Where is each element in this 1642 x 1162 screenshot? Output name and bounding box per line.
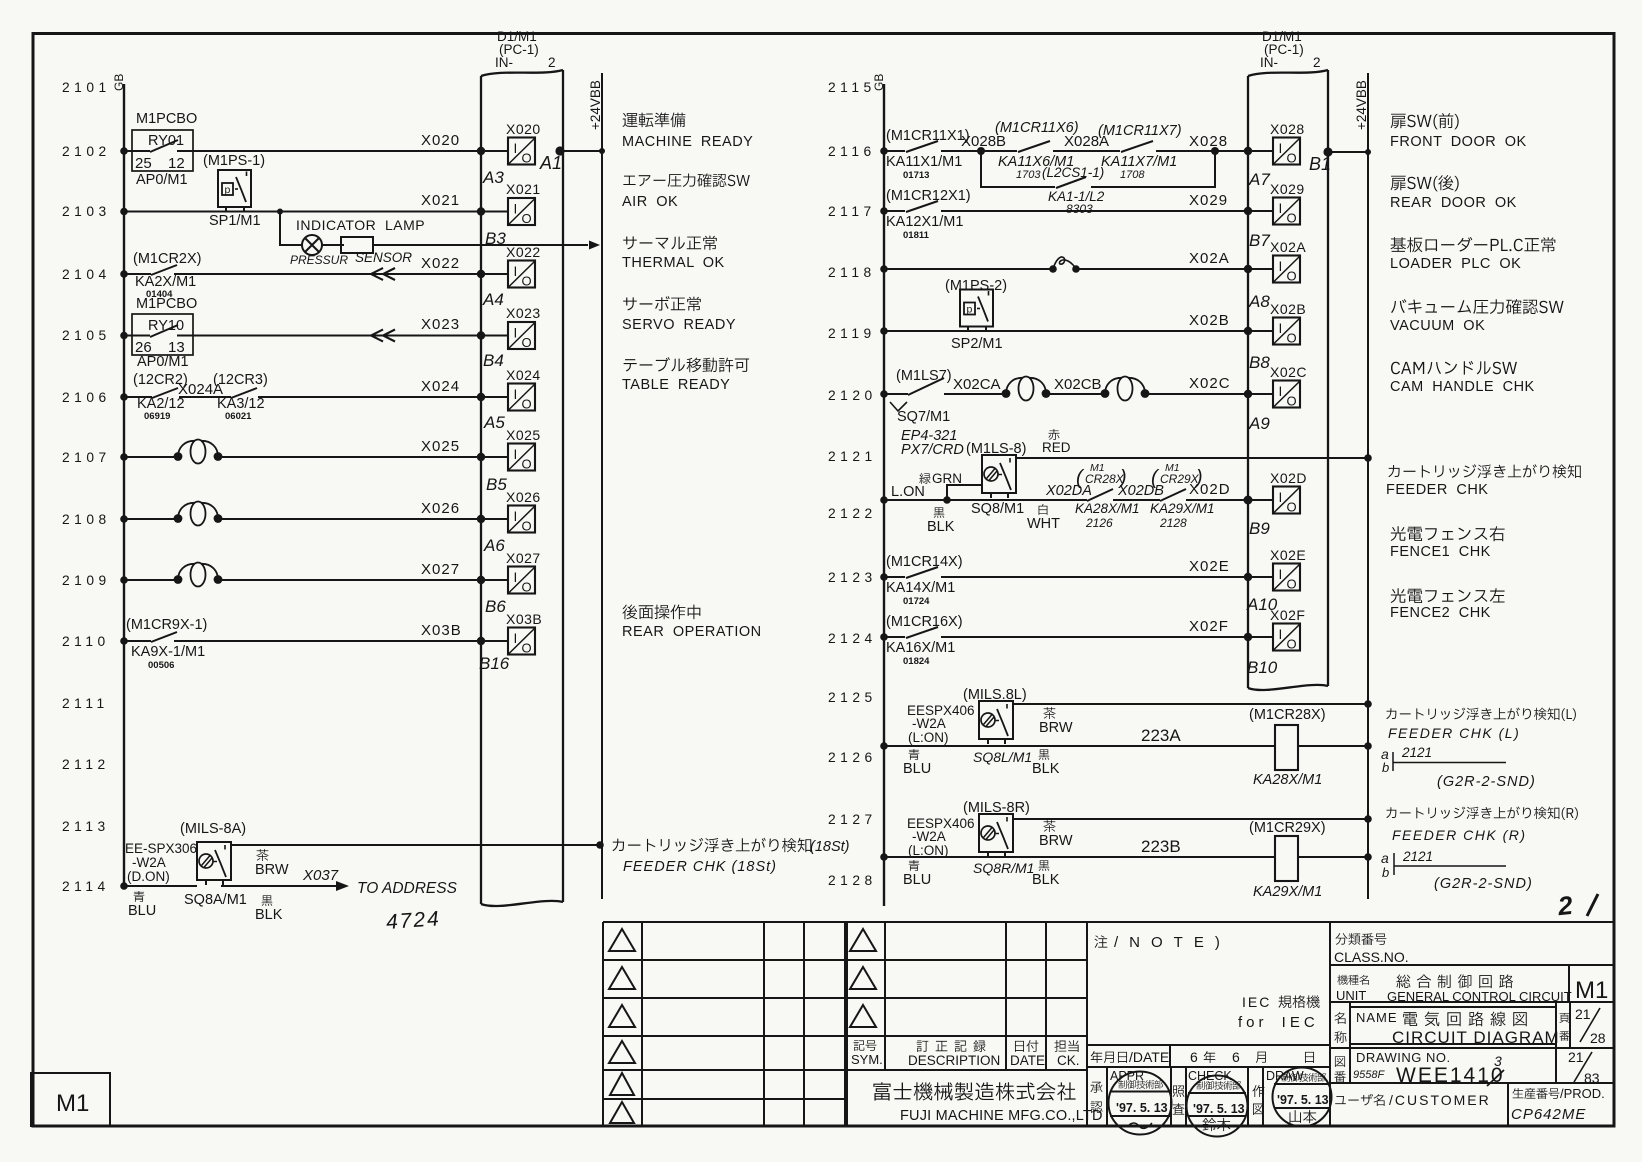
svg-text:2128: 2128	[828, 873, 877, 888]
wire rung 2110	[120, 637, 508, 645]
svg-text:(M1CR2X): (M1CR2X)	[133, 251, 201, 267]
cross reference a/b 2121 R	[1381, 849, 1533, 892]
label X02F wire	[1189, 618, 1229, 635]
svg-text:(G2R-2-SND): (G2R-2-SND)	[1434, 876, 1533, 892]
label WHT white wire	[1027, 504, 1060, 532]
caption rung 2123 FENCE1 CHK	[1390, 526, 1505, 560]
photo sensor switch SQ8A/M1 (MILS-8A)	[125, 821, 247, 908]
PLC input X020	[506, 121, 541, 166]
svg-text:for IEC: for IEC	[1238, 1014, 1319, 1031]
svg-text:X027: X027	[506, 550, 541, 566]
svg-text:BLK: BLK	[255, 907, 283, 923]
svg-text:06919: 06919	[144, 411, 170, 422]
relay contact RY01 M1PCBO	[132, 111, 197, 188]
wire lamp branch	[280, 212, 588, 246]
svg-text:GENERAL CONTROL CIRCUIT: GENERAL CONTROL CIRCUIT	[1387, 989, 1572, 1004]
svg-text:VACUUM OK: VACUUM OK	[1390, 318, 1485, 334]
svg-text:KA14X/M1: KA14X/M1	[886, 580, 955, 596]
svg-text:X02F: X02F	[1189, 618, 1229, 635]
wire rung 2122	[880, 496, 1273, 505]
svg-text:M1PCBO: M1PCBO	[136, 111, 197, 127]
wire 2121 sensor red to +24VBB	[1016, 454, 1372, 462]
svg-text:B16: B16	[479, 654, 510, 673]
PLC input X022	[506, 244, 541, 289]
date row	[1091, 1049, 1314, 1065]
title block grid	[603, 922, 1614, 1126]
svg-text:/PROD.: /PROD.	[1560, 1086, 1605, 1101]
arrows rung 2105	[371, 330, 395, 342]
relay contact M1CR14X	[886, 554, 963, 607]
svg-text:2112: 2112	[62, 757, 110, 772]
svg-text:b: b	[1382, 760, 1389, 775]
revision triangles table A	[609, 929, 635, 1123]
svg-text:(D.ON): (D.ON)	[127, 869, 170, 884]
svg-text:M1: M1	[56, 1090, 89, 1117]
PLC input X024	[506, 367, 541, 412]
caption rung 2117 REAR DOOR OK	[1390, 175, 1517, 211]
label BLK 2126	[1032, 749, 1060, 777]
connector D1/M1 (PC-1) IN-2 left header	[495, 29, 556, 70]
svg-text:REAR OPERATION: REAR OPERATION	[622, 624, 762, 640]
limit switch SQ7/M1 (M1LS7)	[890, 368, 952, 425]
svg-text:2119: 2119	[828, 326, 876, 341]
connector pair rung 2109	[174, 563, 223, 587]
svg-text:6: 6	[1232, 1049, 1240, 1065]
svg-text:2115: 2115	[828, 80, 876, 95]
company name FUJI MACHINE	[873, 1082, 1102, 1124]
svg-text:SQ8A/M1: SQ8A/M1	[184, 892, 247, 908]
arrow to +24VBB	[589, 241, 600, 250]
svg-text:83: 83	[1584, 1070, 1600, 1086]
relay contact 12CR2	[133, 372, 188, 422]
svg-text:CK.: CK.	[1057, 1053, 1080, 1068]
svg-text:DRAWING NO.: DRAWING NO.	[1356, 1050, 1451, 1065]
svg-text:a: a	[1381, 850, 1389, 866]
PLC input X02B	[1270, 301, 1306, 346]
svg-text:2110: 2110	[62, 634, 110, 649]
svg-text:KA11X1/M1: KA11X1/M1	[886, 154, 962, 170]
svg-text:SQ8R/M1: SQ8R/M1	[973, 860, 1034, 876]
svg-text:SERVO READY: SERVO READY	[622, 317, 736, 333]
wire rung 2107	[120, 453, 508, 461]
svg-text:B9: B9	[1249, 519, 1270, 538]
svg-text:(M1CR12X1): (M1CR12X1)	[886, 188, 971, 204]
label X028 wire	[1189, 133, 1228, 150]
class no cell	[1334, 933, 1409, 965]
label INDICATOR LAMP	[296, 217, 425, 233]
wire left GB bus	[123, 84, 125, 886]
svg-text:INDICATOR LAMP: INDICATOR LAMP	[296, 217, 425, 233]
svg-text:X02B: X02B	[1270, 301, 1306, 317]
label L.ON	[891, 484, 925, 500]
caption rung 2118 LOADER PLC OK	[1390, 237, 1555, 272]
svg-text:/DATE: /DATE	[1129, 1049, 1169, 1065]
svg-text:B5: B5	[486, 475, 507, 494]
svg-text:PX7/CRD: PX7/CRD	[901, 442, 964, 458]
connector pair rung 2120 right	[1101, 377, 1150, 401]
svg-text:25: 25	[135, 155, 152, 172]
svg-text:A9: A9	[1248, 414, 1270, 433]
svg-text:X020: X020	[421, 132, 460, 149]
svg-text:X027: X027	[421, 561, 460, 578]
connector rail box right	[1248, 70, 1328, 690]
svg-text:(M1PS-1): (M1PS-1)	[203, 153, 265, 169]
label X020 wire	[421, 132, 460, 149]
label BLK black wire	[255, 895, 283, 923]
wire rung 2109	[120, 576, 508, 584]
svg-text:12: 12	[168, 155, 185, 172]
svg-text:DESCRIPTION: DESCRIPTION	[908, 1053, 1000, 1068]
svg-text:2: 2	[548, 55, 556, 70]
svg-text:BLU: BLU	[903, 761, 931, 777]
svg-text:SYM.: SYM.	[851, 1052, 883, 1067]
svg-text:X02C: X02C	[1270, 364, 1307, 380]
label BLU 2126	[903, 749, 931, 777]
PLC input X029	[1270, 181, 1305, 226]
svg-text:X028: X028	[1189, 133, 1228, 150]
relay contact M1CR12X1	[886, 188, 971, 241]
svg-text:B7: B7	[1249, 231, 1270, 250]
svg-text:X022: X022	[506, 244, 541, 260]
connector pair rung 2107	[174, 440, 223, 464]
svg-text:KA2X/M1: KA2X/M1	[135, 274, 196, 290]
PLC input X023	[506, 305, 541, 350]
svg-text:2113: 2113	[62, 819, 110, 834]
svg-text:X029: X029	[1189, 192, 1228, 209]
PLC input X02A	[1270, 239, 1306, 284]
svg-text:+24VBB: +24VBB	[1354, 80, 1369, 130]
connector pair rung 2120 left	[1002, 377, 1051, 401]
pin B1	[1309, 154, 1331, 174]
svg-text:(L2CS1-1): (L2CS1-1)	[1042, 165, 1104, 180]
node GB left bus label	[112, 74, 126, 91]
svg-text:SENSOR: SENSOR	[355, 250, 412, 265]
svg-text:(18St): (18St)	[810, 839, 850, 855]
svg-text:IN-: IN-	[495, 55, 513, 70]
svg-text:2120: 2120	[828, 388, 877, 403]
label X029 wire	[1189, 192, 1228, 209]
svg-text:223B: 223B	[1141, 837, 1181, 856]
net +24VBB right label	[1354, 80, 1369, 130]
svg-text:X020: X020	[506, 121, 541, 137]
svg-text:2121: 2121	[1401, 745, 1432, 760]
svg-text:FEEDER CHK (R): FEEDER CHK (R)	[1392, 827, 1527, 843]
PLC input X027	[506, 550, 541, 595]
customer row	[1335, 1086, 1605, 1123]
svg-text:BLK: BLK	[927, 519, 955, 535]
label X021 wire	[421, 192, 460, 209]
svg-text:01811: 01811	[903, 230, 930, 241]
relay contact M1CR11X6	[995, 120, 1079, 181]
svg-text:SQ8L/M1: SQ8L/M1	[973, 749, 1032, 765]
label X027 wire	[421, 561, 460, 578]
caption rung 2119 VACUUM OK	[1390, 299, 1564, 334]
wire 2113 sensor brown to +24VBB	[230, 841, 604, 849]
svg-text:IEC: IEC	[1242, 994, 1271, 1010]
svg-text:2106: 2106	[62, 390, 111, 405]
photo sensor SQ8L/M1 (MILS.8L)	[907, 687, 1032, 765]
relay contact RY10 M1PCBO	[132, 296, 197, 370]
svg-text:THERMAL OK: THERMAL OK	[622, 255, 725, 271]
label X02B wire	[1189, 312, 1230, 329]
svg-text:A8: A8	[1248, 292, 1270, 311]
svg-text:X023: X023	[506, 305, 541, 321]
svg-text:X02C: X02C	[1189, 375, 1231, 392]
svg-text:X02B: X02B	[1189, 312, 1230, 329]
relay contact M1CR16X	[886, 614, 963, 667]
node GB right bus label	[872, 74, 886, 91]
svg-text:X02E: X02E	[1270, 547, 1306, 563]
label BRW 2125	[1039, 707, 1073, 736]
svg-text:(MILS-8A): (MILS-8A)	[180, 821, 246, 837]
wire 2125 brown to +24VBB	[1013, 700, 1372, 708]
svg-text:'97. 5. 13: '97. 5. 13	[1277, 1093, 1329, 1107]
label BLU blue wire	[128, 891, 156, 919]
approval stamp APP	[1109, 1072, 1172, 1135]
svg-text:A5: A5	[483, 413, 505, 432]
svg-text:X02D: X02D	[1270, 470, 1307, 486]
svg-text:(G2R-2-SND): (G2R-2-SND)	[1437, 774, 1536, 790]
svg-text:BRW: BRW	[255, 862, 289, 878]
svg-text:AP0/M1: AP0/M1	[137, 354, 189, 370]
svg-text:SP1/M1: SP1/M1	[209, 213, 261, 229]
label X02E wire	[1189, 558, 1230, 575]
svg-text:B10: B10	[1247, 658, 1278, 677]
svg-text:LOADER PLC OK: LOADER PLC OK	[1390, 256, 1521, 272]
wire rung 2102	[120, 147, 508, 155]
svg-text:-W2A: -W2A	[912, 829, 946, 844]
PLC input X02F	[1270, 607, 1305, 652]
relay coil M1CR29X KA29X/M1	[1249, 820, 1326, 900]
caption rung 2113 FEEDER CHK 18St	[613, 838, 850, 875]
note cell	[1095, 934, 1320, 1031]
label X023 wire	[421, 316, 460, 333]
svg-text:4724: 4724	[385, 907, 441, 934]
svg-text:2108: 2108	[62, 512, 111, 527]
svg-text:2121: 2121	[1402, 849, 1433, 864]
label X037 to address arrow	[302, 867, 458, 897]
svg-text:X026: X026	[506, 489, 541, 505]
svg-text:RY01: RY01	[148, 133, 184, 149]
PLC input X02C	[1270, 364, 1307, 409]
svg-text:UNIT: UNIT	[1336, 988, 1366, 1003]
svg-text:FEEDER CHK (18St): FEEDER CHK (18St)	[623, 859, 777, 875]
connector rail box left	[481, 70, 563, 906]
svg-text:BLU: BLU	[903, 872, 931, 888]
wire green branch	[943, 485, 982, 504]
svg-text:FENCE1 CHK: FENCE1 CHK	[1390, 544, 1491, 560]
node X028A	[1064, 133, 1109, 150]
wire 2127 brown to +24VBB	[1013, 815, 1372, 823]
svg-text:2101: 2101	[62, 80, 111, 95]
PLC input X028	[1270, 121, 1305, 166]
relay contact 12CR3	[213, 372, 268, 422]
photo sensor SQ8R/M1 (MILS-8R)	[907, 800, 1034, 876]
wire rung 2106	[120, 393, 508, 401]
label BRW brown wire	[255, 849, 289, 878]
svg-text:2118: 2118	[828, 265, 876, 280]
svg-text:KA12X1/M1: KA12X1/M1	[886, 214, 963, 230]
svg-text:KA29X/M1: KA29X/M1	[1253, 884, 1322, 900]
svg-text:GRN: GRN	[932, 471, 962, 486]
svg-text:2122: 2122	[828, 506, 877, 521]
svg-text:X022: X022	[421, 255, 460, 272]
approval stamp CHECK	[1187, 1076, 1248, 1137]
svg-text:2111: 2111	[62, 696, 109, 711]
svg-text:2107: 2107	[62, 450, 111, 465]
wire +24VBB left rail	[601, 73, 603, 899]
svg-text:X024: X024	[506, 367, 541, 383]
connector pair rung 2108	[174, 502, 223, 526]
svg-text:2103: 2103	[62, 204, 111, 219]
svg-text:X025: X025	[421, 438, 460, 455]
PLC input X03B	[506, 611, 542, 656]
relay contact M1CR2X	[133, 251, 201, 300]
svg-text:B3: B3	[485, 229, 506, 248]
svg-text:21: 21	[1575, 1006, 1591, 1022]
wire rung 2117	[880, 207, 1273, 215]
svg-text:X025: X025	[506, 427, 541, 443]
label X02A wire	[1189, 250, 1230, 267]
svg-text:X02E: X02E	[1189, 558, 1230, 575]
svg-text:B4: B4	[483, 351, 504, 370]
svg-text:A7: A7	[1248, 170, 1270, 189]
svg-text:2123: 2123	[828, 570, 877, 585]
label BRW 2127	[1039, 820, 1073, 849]
wire 2102 to +24VBB	[555, 146, 605, 155]
sheet code box M1 bottom-left	[31, 1073, 110, 1126]
resistor SENSOR	[341, 237, 412, 265]
pin A1	[539, 153, 562, 173]
svg-text:(M1CR9X-1): (M1CR9X-1)	[126, 617, 207, 633]
svg-text:FENCE2 CHK: FENCE2 CHK	[1390, 605, 1491, 621]
svg-text:9558F: 9558F	[1353, 1069, 1385, 1081]
svg-text:A1: A1	[539, 153, 562, 173]
svg-text:PRESSUR: PRESSUR	[290, 253, 348, 267]
svg-text:IN-: IN-	[1260, 55, 1278, 70]
svg-text:+24VBB: +24VBB	[588, 80, 603, 130]
svg-text:SQ8/M1: SQ8/M1	[971, 501, 1024, 517]
svg-text:(M1CR28X): (M1CR28X)	[1249, 707, 1326, 723]
label X026 wire	[421, 500, 460, 517]
lamp PRESSUR	[290, 235, 348, 267]
revision triangles table B	[850, 929, 876, 1027]
relay contact M1CR11X1	[886, 128, 970, 181]
svg-text:BLK: BLK	[1032, 872, 1060, 888]
node 223B	[1141, 837, 1181, 856]
svg-text:FEEDER CHK: FEEDER CHK	[1386, 482, 1488, 498]
PLC input X026	[506, 489, 541, 534]
svg-text:223A: 223A	[1141, 726, 1181, 745]
relay contact L2CS1-1 KA1-1/L2	[1042, 165, 1105, 216]
wire 2116 to +24VBB	[1323, 147, 1371, 156]
svg-text:1703: 1703	[1016, 169, 1041, 181]
connector D1/M1 (PC-1) IN-2 right header	[1260, 29, 1321, 70]
svg-text:(M1PS-2): (M1PS-2)	[945, 278, 1007, 294]
svg-text:(L:ON): (L:ON)	[908, 843, 949, 858]
node X02CA	[953, 376, 1001, 393]
right rung numbers 2115-2128	[828, 80, 877, 888]
svg-text:FUJI MACHINE MFG.CO.,LTD: FUJI MACHINE MFG.CO.,LTD	[900, 1108, 1103, 1124]
relay contact M1 CR29X (X02DB)	[1117, 462, 1215, 530]
svg-text:B6: B6	[485, 597, 506, 616]
svg-text:RED: RED	[1042, 440, 1071, 455]
svg-text:EE-SPX306: EE-SPX306	[125, 841, 197, 856]
svg-text:-W2A: -W2A	[132, 855, 166, 870]
svg-text:CAM HANDLE CHK: CAM HANDLE CHK	[1390, 379, 1535, 395]
svg-text:WEE1410: WEE1410	[1396, 1064, 1505, 1087]
svg-text:SP2/M1: SP2/M1	[951, 336, 1003, 352]
label BLK black wire 2122	[927, 507, 955, 535]
caption rung 2124 FENCE2 CHK	[1390, 588, 1505, 621]
wire rung 2123	[880, 573, 1273, 581]
PLC input X021	[506, 181, 541, 226]
svg-text:/NOTE): /NOTE)	[1114, 934, 1231, 951]
svg-text:KA28X/M1: KA28X/M1	[1075, 501, 1140, 516]
PLC input X025	[506, 427, 541, 472]
svg-text:2105: 2105	[62, 328, 111, 343]
svg-text:TABLE READY: TABLE READY	[622, 377, 730, 393]
svg-text:KA2/12: KA2/12	[137, 396, 185, 412]
label RED red wire	[1042, 429, 1071, 455]
cross reference a/b 2121 L	[1381, 745, 1536, 790]
svg-text:2: 2	[1313, 55, 1321, 70]
label BLK 2128	[1032, 860, 1060, 888]
svg-text:WHT: WHT	[1027, 516, 1060, 532]
svg-text:2124: 2124	[828, 631, 877, 646]
svg-text:00506: 00506	[148, 660, 174, 671]
svg-text:M1: M1	[1575, 977, 1608, 1004]
caption rung 2110 REAR OPERATION	[622, 604, 762, 640]
relay contact M1CR9X-1	[126, 617, 207, 671]
caption rung 2120 CAM HANDLE CHK	[1390, 361, 1535, 395]
svg-text:X024: X024	[421, 378, 460, 395]
caption rung 2102 MACHINE READY	[622, 112, 753, 150]
caption rung 2125 FEEDER CHK L	[1386, 707, 1576, 741]
svg-text:KA3/12: KA3/12	[217, 396, 265, 412]
caption rung 2116 FRONT DOOR OK	[1390, 113, 1527, 150]
svg-text:6: 6	[1190, 1049, 1198, 1065]
photo sensor SQ8/M1 (M1LS-8) EP4-321	[901, 428, 1026, 517]
unit row GENERAL CONTROL CIRCUIT	[1336, 974, 1608, 1004]
node 223A	[1141, 726, 1181, 745]
node X028B	[961, 133, 1006, 150]
PLC input X02E	[1270, 547, 1306, 592]
approval stamp DRAW	[1273, 1068, 1332, 1127]
svg-text:(M1LS7): (M1LS7)	[896, 368, 952, 384]
svg-text:X037: X037	[302, 867, 339, 884]
svg-text:A6: A6	[483, 536, 505, 555]
svg-text:BLK: BLK	[1032, 761, 1060, 777]
handwritten page number 21	[1556, 890, 1598, 922]
svg-text:06021: 06021	[225, 411, 252, 422]
svg-text:01713: 01713	[903, 170, 929, 181]
svg-text:2104: 2104	[62, 267, 111, 282]
svg-text:REAR DOOR OK: REAR DOOR OK	[1390, 195, 1517, 211]
node X024A	[178, 381, 223, 398]
svg-text:(12CR3): (12CR3)	[213, 372, 268, 388]
label GRN green wire	[919, 471, 962, 486]
svg-text:MACHINE READY: MACHINE READY	[622, 134, 753, 150]
svg-text:TO ADDRESS: TO ADDRESS	[357, 880, 458, 897]
svg-text:'97. 5. 13: '97. 5. 13	[1116, 1101, 1168, 1115]
label X02D wire	[1189, 481, 1231, 498]
caption rung 2104 THERMAL OK	[622, 236, 725, 271]
svg-text:2127: 2127	[828, 812, 877, 827]
svg-text:KA9X-1/M1: KA9X-1/M1	[131, 644, 205, 660]
name row CIRCUIT DIAGRAM	[1334, 1006, 1605, 1047]
pin labels right connector	[1246, 170, 1278, 677]
